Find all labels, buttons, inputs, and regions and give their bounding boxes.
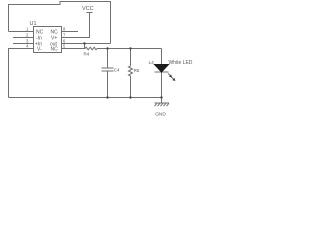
resistor R4 (85, 47, 97, 50)
wire R5 top branch (130, 49, 132, 67)
LED arrowhead 2 (172, 78, 175, 81)
svg-text:R5: R5 (134, 68, 140, 73)
wire C4 bottom branch (107, 71, 109, 98)
svg-text:U1: U1 (30, 21, 37, 27)
junction C4 top (106, 47, 108, 49)
svg-text:L4: L4 (149, 60, 155, 66)
junction R5 top (129, 47, 131, 49)
LED emission arrow 2 (171, 77, 173, 79)
svg-text:R4: R4 (84, 52, 90, 57)
svg-text:5: 5 (63, 44, 66, 49)
capacitor C4 (102, 67, 114, 69)
LED L4 cathode bar (155, 71, 169, 73)
op-amp U1 body (34, 27, 62, 53)
svg-text:GND: GND (155, 112, 166, 118)
ground bar (155, 102, 170, 104)
wire pin2 stub (13, 37, 34, 39)
svg-text:NC: NC (51, 47, 59, 53)
ground stub (161, 98, 163, 104)
ground hatch 5 (167, 103, 170, 106)
wire pin6 out (62, 43, 111, 45)
ground hatch 2 (158, 103, 161, 106)
wire LED bottom branch (161, 72, 163, 98)
junction GND (160, 96, 162, 98)
ground hatch 4 (164, 103, 167, 106)
svg-text:White LED: White LED (169, 60, 193, 66)
wire pin7 to VCC (62, 13, 90, 38)
svg-text:V-: V- (37, 47, 42, 53)
wire pin1 to loop (9, 31, 34, 33)
svg-text:1: 1 (26, 27, 29, 32)
junction out/R4 (83, 42, 85, 44)
wire C4 top branch (107, 49, 109, 69)
wire pin8 stub (62, 31, 79, 33)
LED L4 triangle (155, 65, 169, 73)
svg-text:2: 2 (26, 33, 29, 38)
resistor R5 (129, 66, 133, 76)
svg-text:7: 7 (63, 33, 66, 38)
power VCC T-bar (87, 12, 93, 14)
svg-text:8: 8 (63, 27, 66, 32)
wire top feedback loop (9, 2, 111, 44)
wire pin4 to ground rail (9, 49, 34, 98)
svg-text:VCC: VCC (82, 6, 94, 12)
wire LED top branch (161, 49, 163, 65)
LED emission arrow 1 (168, 73, 170, 75)
wire pin3 stub (13, 43, 34, 45)
wire bottom ground rail (9, 97, 162, 99)
LED arrowhead 1 (169, 74, 172, 77)
wire R5 bottom branch (130, 76, 132, 98)
wire rail R4 to LED (97, 48, 162, 50)
svg-text:4: 4 (26, 44, 29, 49)
svg-text:C4: C4 (114, 68, 120, 73)
ground hatch 1 (155, 103, 158, 106)
wire pin5 to R4 (62, 48, 86, 50)
junction C4 bottom (106, 96, 108, 98)
junction R5 bottom (129, 96, 131, 98)
ground hatch 3 (161, 103, 164, 106)
wire out drop to rail (84, 44, 86, 49)
